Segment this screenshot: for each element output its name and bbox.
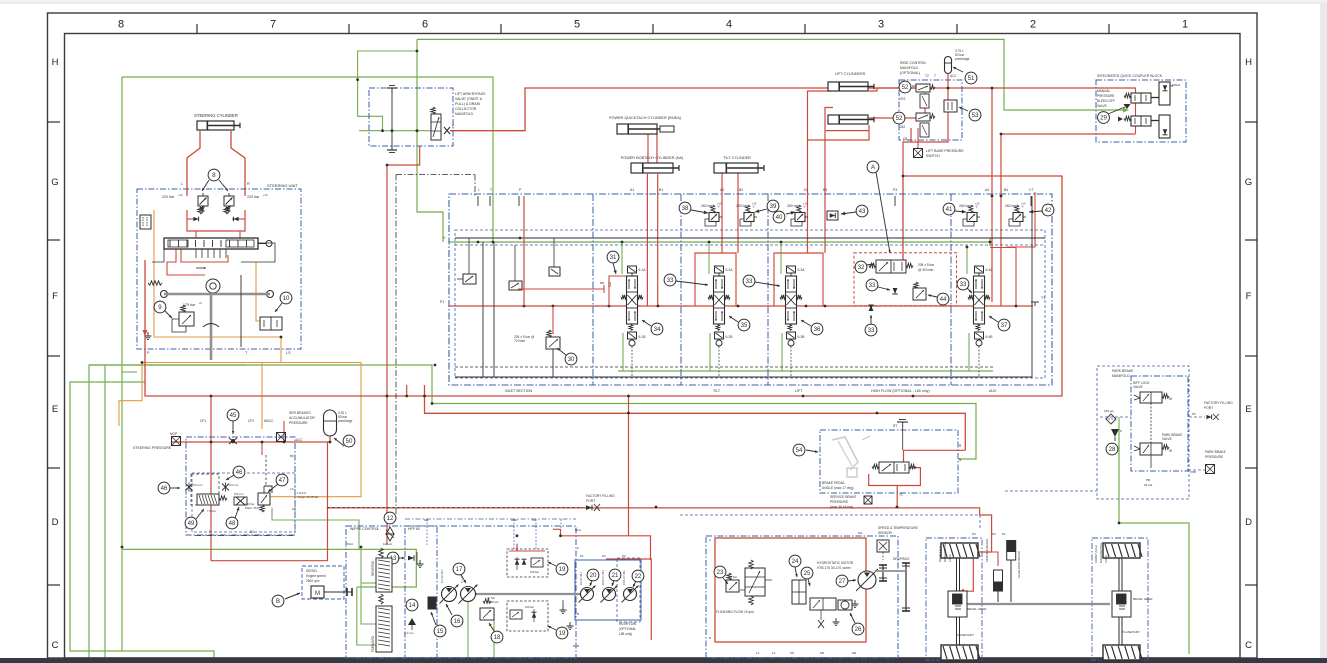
svg-text:4: 4	[726, 19, 732, 31]
flushing relief	[727, 573, 731, 580]
tilt cylinder	[714, 163, 758, 173]
wire red steer cyl right	[231, 131, 245, 196]
svg-text:0.6 mm: 0.6 mm	[193, 483, 203, 487]
wippe check 13	[408, 555, 414, 560]
circled 37	[998, 319, 1010, 331]
wire block dashed tank	[455, 366, 993, 368]
svg-text:P: P	[1120, 429, 1122, 433]
svg-text:PORT: PORT	[1204, 406, 1213, 410]
svg-text:D1: D1	[292, 507, 296, 511]
circled 20	[587, 569, 599, 581]
arrow 50	[334, 438, 344, 446]
svg-text:SERVICE BRAKE: SERVICE BRAKE	[985, 539, 989, 562]
inlet wire 2	[514, 245, 516, 281]
svg-text:BRAKE PEDAL: BRAKE PEDAL	[822, 481, 845, 485]
park shuttle	[1111, 429, 1119, 437]
steering misc arrow	[196, 267, 206, 269]
svg-text:5: 5	[574, 19, 580, 31]
LS dashed park brake left	[1100, 416, 1131, 418]
svg-text:50: 50	[346, 438, 353, 445]
wire red system supply rail	[145, 176, 1062, 396]
svg-text:P3: P3	[893, 188, 897, 192]
wire green LS stub tilt	[621, 242, 623, 274]
svg-text:(max 36 ±6 bar): (max 36 ±6 bar)	[830, 505, 853, 509]
wire block top rail	[455, 237, 1045, 239]
wire red N1A stub	[553, 529, 561, 536]
flushing wires	[740, 589, 745, 591]
svg-text:G: G	[1245, 177, 1252, 188]
wire drive shaft main	[967, 603, 1110, 605]
svg-text:FLUSHING FLOW 10 lpm: FLUSHING FLOW 10 lpm	[716, 610, 754, 614]
svg-text:(OPTIONAL: (OPTIONAL	[619, 627, 636, 631]
svg-text:DROPBOX: DROPBOX	[893, 557, 910, 561]
svg-text:XPB: XPB	[1190, 470, 1196, 474]
front wheel top	[1103, 543, 1140, 558]
hf relief 44	[914, 282, 918, 289]
wire red brake relief feed	[261, 442, 263, 455]
svg-text:28: 28	[1109, 446, 1116, 453]
wire red ridecontrol down	[903, 74, 948, 176]
svg-text:70 l/min: 70 l/min	[514, 339, 525, 343]
wire red lift right top	[869, 88, 918, 91]
circled 36	[811, 323, 823, 335]
brake orifice 46b	[222, 483, 229, 492]
park wires	[1150, 403, 1152, 443]
svg-text:H: H	[52, 57, 59, 68]
circled 51	[965, 72, 977, 84]
svg-text:+10: +10	[178, 193, 183, 197]
circled 50	[343, 435, 355, 447]
arrow 36	[801, 320, 811, 326]
service brake switch	[864, 496, 872, 504]
svg-text:L: L	[181, 182, 183, 186]
svg-text:(OPTIONAL): (OPTIONAL)	[900, 71, 920, 75]
park brake valve	[1140, 443, 1162, 455]
svg-text:SERVICE BRAKE: SERVICE BRAKE	[830, 495, 857, 499]
svg-text:17: 17	[456, 566, 463, 573]
wire red quicktach drop B1	[657, 174, 659, 306]
coupler male 2	[1159, 115, 1170, 138]
svg-text:PRESSURE: PRESSURE	[1205, 455, 1224, 459]
svg-text:LIFT ARM BYPASS: LIFT ARM BYPASS	[455, 92, 486, 96]
inlet wire 1	[468, 238, 470, 274]
lift spool	[715, 266, 724, 273]
svg-text:A1: A1	[630, 188, 634, 192]
wire green bypass drop	[417, 39, 443, 242]
svg-text:6.3B: 6.3B	[798, 335, 806, 339]
svg-text:33: 33	[868, 327, 875, 334]
wire red steer spool drop a	[167, 249, 205, 275]
hydro motor	[858, 571, 876, 589]
wire green flush drain 2	[493, 612, 495, 657]
wire green wippe pilot mid	[361, 582, 376, 584]
arrow 10	[275, 303, 282, 312]
circled 32	[855, 261, 867, 273]
svg-text:WIPPE CONTROL: WIPPE CONTROL	[350, 527, 379, 531]
svg-text:CR2: CR2	[899, 97, 906, 101]
svg-text:47: 47	[279, 477, 286, 484]
circled 17	[453, 563, 465, 575]
arrow 44	[928, 295, 937, 297]
svg-text:R: R	[247, 182, 250, 186]
arrow 37	[989, 316, 998, 322]
svg-text:33: 33	[667, 277, 674, 284]
svg-text:AUX: AUX	[989, 389, 997, 393]
wire red tilt drop A2	[721, 172, 723, 253]
svg-text:LIFT CYLINDERS: LIFT CYLINDERS	[835, 72, 866, 76]
arrow 19b	[548, 626, 556, 630]
circled 27	[836, 575, 848, 587]
svg-text:margin 10-15 bar: margin 10-15 bar	[297, 495, 318, 499]
svg-text:220 bar: 220 bar	[162, 195, 175, 199]
svg-text:W: W	[1169, 397, 1172, 401]
wire green LS rail valve block	[449, 241, 990, 243]
wire red steer cyl left	[187, 131, 200, 196]
svg-text:BEVEL GEAR: BEVEL GEAR	[967, 607, 987, 611]
svg-text:16.8 cm³ 36 s: 16.8 cm³ 36 s	[602, 569, 605, 585]
inlet wire 3	[553, 238, 555, 267]
svg-text:23 cm³ 36 s: 23 cm³ 36 s	[580, 571, 583, 585]
wire red charge box rail	[509, 550, 545, 552]
arrow 25	[808, 579, 810, 586]
arrow 24	[795, 567, 797, 577]
wire green left drop 1	[70, 382, 214, 657]
svg-text:B1: B1	[659, 188, 663, 192]
wire red hf pump loop	[606, 559, 651, 640]
wire red acc drop	[329, 434, 331, 442]
ride comp 53	[944, 100, 957, 112]
wire green bypass inner rail	[359, 130, 431, 132]
wire red quicktach link	[647, 134, 649, 163]
svg-text:LS: LS	[290, 487, 294, 491]
arrow 33d	[967, 288, 972, 293]
wire red lift drop B3	[825, 130, 869, 132]
valve block port stubs	[477, 196, 479, 206]
wire red SP riser	[327, 442, 329, 508]
svg-text:FACTORY FILLING: FACTORY FILLING	[586, 494, 615, 498]
svg-text:44: 44	[940, 296, 947, 303]
pump tank syms	[562, 606, 564, 610]
comp 24 cooler	[792, 580, 806, 604]
wire green arrow into coupler check	[1123, 108, 1129, 113]
svg-text:LOCK: LOCK	[948, 554, 952, 562]
arrow 8 left	[202, 180, 209, 191]
steering spool drops	[195, 249, 197, 258]
wire red pedal R entry	[904, 450, 966, 462]
arrow 46b	[226, 475, 234, 480]
arrow B	[285, 593, 300, 599]
svg-text:MANIFOLD: MANIFOLD	[900, 66, 919, 70]
gear pump 1	[581, 588, 594, 601]
svg-text:27: 27	[839, 578, 846, 585]
svg-text:ANGLE (max 17 deg): ANGLE (max 17 deg)	[822, 486, 854, 490]
svg-text:MANIFOLD: MANIFOLD	[1112, 374, 1130, 378]
circled 33c	[866, 279, 878, 291]
svg-text:320 bar: 320 bar	[530, 570, 539, 574]
wire red steer relief bridge	[187, 210, 245, 231]
circled 12	[384, 512, 396, 524]
wire red to brake pedal	[425, 385, 966, 450]
svg-text:L85 only): L85 only)	[619, 632, 632, 636]
svg-text:ACC: ACC	[296, 438, 303, 442]
svg-text:C: C	[52, 640, 59, 651]
arrow 43	[841, 212, 856, 214]
ride valve CB2	[916, 113, 930, 121]
charge box top	[507, 549, 548, 577]
flushing valve	[745, 568, 765, 596]
circled 42	[1042, 204, 1054, 216]
box rear axle	[926, 538, 982, 660]
pedal valve stub	[902, 427, 904, 450]
svg-text:H: H	[1245, 57, 1252, 68]
arrow 47	[268, 484, 278, 492]
inlet wire 4	[518, 288, 604, 290]
steering misc wire 1	[241, 243, 275, 262]
arrow 26	[850, 613, 855, 623]
svg-text:6.3A: 6.3A	[798, 268, 806, 272]
circled 24	[789, 555, 801, 567]
wire orange LS to brake margin	[268, 363, 361, 497]
LS dashed pedal line	[680, 514, 980, 516]
circled 29	[1098, 112, 1110, 124]
charge box bottom	[507, 601, 548, 631]
wire green bypass left net	[358, 51, 417, 131]
svg-text:37: 37	[1001, 322, 1008, 329]
charge box top checks	[514, 559, 519, 565]
svg-text:MACC: MACC	[264, 419, 274, 423]
svg-text:DIFFERENTIAL: DIFFERENTIAL	[1099, 542, 1103, 563]
svg-text:10: 10	[283, 295, 290, 302]
steering roller bar	[164, 293, 270, 295]
wire green left main drop	[121, 77, 123, 651]
svg-text:precharge: precharge	[955, 57, 970, 61]
svg-text:precharge: precharge	[338, 419, 353, 423]
arrow 33e	[870, 315, 872, 324]
steering check R	[233, 217, 238, 222]
wire red steer P arrowhead	[143, 330, 148, 336]
steering gerotor	[206, 279, 220, 293]
arrow 38	[691, 210, 708, 213]
svg-text:6.4B: 6.4B	[986, 335, 994, 339]
wire red steer inner 1	[187, 218, 196, 220]
svg-text:K3: K3	[804, 188, 808, 192]
wire green brake case link	[272, 508, 359, 550]
brake check 48	[234, 497, 247, 505]
arrow 42	[1029, 211, 1042, 212]
svg-text:REVERSE: REVERSE	[371, 561, 375, 576]
svg-text:22: 22	[635, 573, 642, 580]
coupler valve 1	[1124, 93, 1131, 97]
wire red bypass W drain	[387, 146, 420, 545]
svg-text:25: 25	[804, 570, 811, 577]
svg-text:HFP 60: HFP 60	[408, 527, 420, 531]
circled 33d	[957, 278, 969, 290]
wire brake D2 dashdot	[195, 535, 294, 537]
steering spool bar	[164, 238, 258, 249]
svg-text:N1A: N1A	[575, 528, 581, 532]
circled 52a	[899, 81, 911, 93]
box brake accumulator module	[186, 437, 295, 535]
svg-text:10 bar: 10 bar	[729, 575, 737, 579]
wire red coupler drop B4	[1000, 134, 1002, 306]
steering column arrow	[203, 324, 219, 328]
wire red lift loop2	[825, 108, 833, 131]
inlet comp box 3	[549, 267, 560, 276]
coupler bleed check	[1124, 104, 1131, 109]
arrow 27	[848, 580, 856, 581]
arrow 18	[489, 623, 494, 631]
svg-text:D2: D2	[250, 530, 254, 534]
ride solenoid CR2	[920, 94, 929, 108]
svg-text:MANUAL: MANUAL	[1097, 89, 1111, 93]
steering cylinder	[197, 121, 234, 130]
svg-text:BLEED-OFF: BLEED-OFF	[1097, 99, 1115, 103]
power quicktach cylinder	[617, 124, 657, 134]
wire fill port dashed	[327, 507, 583, 509]
svg-text:B2: B2	[739, 188, 743, 192]
arrow 45	[232, 421, 234, 434]
svg-text:12: 12	[387, 515, 394, 522]
svg-text:P1: P1	[580, 554, 584, 558]
svg-text:16: 16	[454, 618, 461, 625]
svg-text:14: 14	[409, 602, 416, 609]
wire front axle shaft top	[1118, 558, 1120, 591]
wire rear axle shaft bottom	[956, 617, 958, 645]
pedal pivot	[862, 436, 870, 440]
arrow 40b	[786, 212, 795, 214]
svg-text:A2: A2	[720, 188, 724, 192]
dropbox gear 2	[905, 563, 907, 611]
diff lock valve	[1140, 392, 1162, 403]
svg-text:L1: L1	[756, 651, 760, 655]
svg-text:24: 24	[792, 558, 799, 565]
wire green block bottom rail	[618, 370, 993, 372]
wire green case drop	[357, 587, 378, 645]
svg-text:Ratio: 70%: Ratio: 70%	[245, 506, 259, 510]
wippe filter	[386, 527, 394, 534]
circled 38	[679, 202, 691, 214]
svg-text:MALE: MALE	[1172, 83, 1180, 87]
wire red tilt section loop	[695, 253, 736, 306]
circled 23	[714, 566, 726, 578]
box valve block inner dashed	[455, 230, 1045, 378]
box ride control manifold	[899, 80, 962, 140]
wire orange LS exit run	[119, 337, 281, 426]
svg-text:INLET SECTION: INLET SECTION	[505, 389, 532, 393]
browser top strip	[0, 0, 1327, 3]
steering relief 9	[181, 305, 185, 312]
svg-text:PORT: PORT	[586, 499, 595, 503]
svg-text:E: E	[52, 404, 58, 415]
box steering unit	[137, 189, 301, 349]
orifice 45	[229, 438, 237, 444]
aux spool	[975, 266, 984, 273]
svg-text:T2: T2	[925, 74, 929, 78]
steering spring	[148, 281, 162, 285]
svg-text:D: D	[52, 517, 59, 528]
svg-text:P1: P1	[440, 300, 444, 304]
rear wheel bottom	[941, 645, 978, 660]
svg-text:E: E	[1245, 404, 1251, 415]
steering check L	[193, 217, 198, 222]
box park brake manifold outer	[1097, 366, 1189, 499]
svg-text:39: 39	[770, 203, 777, 210]
wire red ridecontrol mid	[924, 93, 926, 113]
LS dashed xpb	[1188, 469, 1205, 471]
right scrollbar strip	[1320, 3, 1327, 658]
box front axle	[1092, 538, 1148, 660]
wire red steer P line	[144, 260, 146, 352]
lift cylinder 1	[828, 82, 868, 91]
wire block tank rail	[455, 196, 1032, 377]
wire red pedal valve out	[869, 468, 921, 486]
circled 41	[943, 203, 955, 215]
svg-text:40: 40	[776, 214, 783, 221]
wippe orifice 14	[408, 618, 416, 625]
wire red pump top rail	[561, 536, 651, 560]
circled 18	[491, 631, 503, 643]
wire green park brake drain	[1119, 426, 1189, 654]
divider lift/hf	[767, 194, 769, 385]
svg-text:SWITCH: SWITCH	[926, 154, 940, 158]
svg-text:48: 48	[229, 520, 236, 527]
circled 45	[227, 409, 239, 421]
svg-text:PARK BRAKE: PARK BRAKE	[1205, 450, 1227, 454]
svg-text:PLANETARY: PLANETARY	[956, 633, 974, 637]
wire orange steering LS internal	[154, 210, 281, 337]
gear pump 2	[603, 588, 616, 601]
svg-text:SENSOR: SENSOR	[878, 531, 893, 535]
wire red steer spool drop b	[181, 249, 228, 262]
arrow 48	[235, 507, 239, 518]
wire red MACC drop	[283, 421, 285, 442]
svg-text:B: B	[577, 612, 579, 616]
circled 47	[276, 474, 288, 486]
svg-text:33: 33	[869, 282, 876, 289]
svg-text:13.8 cm³ 36s: 13.8 cm³ 36s	[623, 570, 626, 585]
svg-text:VALVE: VALVE	[1162, 437, 1172, 441]
hf directional valve	[876, 260, 906, 273]
svg-text:32: 32	[858, 264, 865, 271]
svg-text:RT: RT	[893, 424, 897, 428]
svg-text:35: 35	[741, 322, 748, 329]
svg-text:HIGH FLOW (OPTIONAL - L85 only: HIGH FLOW (OPTIONAL - L85 only)	[871, 389, 930, 393]
row ticks	[48, 121, 61, 123]
wire green LS stub lift	[708, 242, 710, 274]
inlet relief drop	[552, 306, 554, 334]
coupler male 1	[1159, 82, 1170, 105]
circled 26	[852, 623, 864, 635]
svg-text:BF: BF	[290, 454, 294, 458]
park filter	[1106, 414, 1116, 424]
svg-text:P1: P1	[1002, 532, 1006, 536]
svg-text:LIFT: LIFT	[795, 389, 803, 393]
svg-text:D: D	[1245, 517, 1252, 528]
motor tank syms	[835, 618, 837, 622]
svg-text:PB: PB	[1146, 478, 1150, 482]
wire front axle shaft bottom	[1118, 617, 1120, 645]
svg-text:A: A	[709, 538, 711, 542]
circled 40	[773, 211, 785, 223]
svg-text:51: 51	[968, 75, 975, 82]
wire red quicktach drop A1	[646, 174, 648, 306]
arrow 17	[461, 575, 466, 583]
svg-text:B: B	[276, 598, 280, 605]
brake orifice 46a	[186, 483, 193, 492]
divider inlet/tilt	[592, 194, 594, 385]
wire green top run to coupler	[417, 39, 1124, 110]
wire rear axle shaft top	[956, 558, 958, 591]
